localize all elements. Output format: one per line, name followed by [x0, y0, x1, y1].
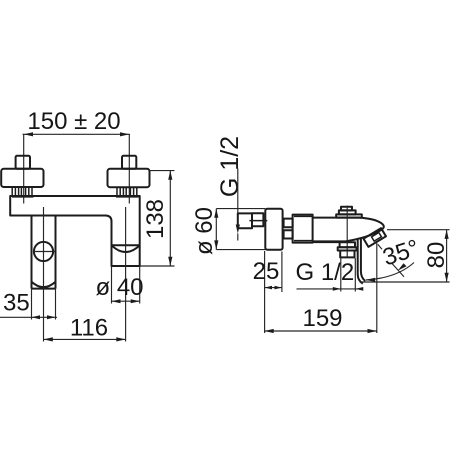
svg-text:138: 138 [142, 199, 169, 239]
arrow 35deg right [398, 263, 407, 270]
outlet lower nipple [340, 251, 354, 258]
dim line 150 [23, 133, 131, 135]
left bolt thread bottom [12, 196, 33, 198]
body centerline [346, 206, 348, 258]
left tube [32, 216, 56, 289]
left bolt thread hatching [12, 187, 32, 196]
arrow 159 right [368, 329, 377, 333]
right tube cap arc [112, 245, 140, 252]
dim line 138 [169, 171, 171, 266]
valve section [293, 215, 313, 243]
dim line 159 [264, 330, 376, 332]
dim 80 bottom extension [362, 281, 450, 283]
arrow 40 right [131, 299, 140, 303]
dim line G 1/2 [297, 288, 363, 290]
arrow 116 right [116, 337, 125, 341]
left tube centerline [43, 207, 45, 342]
arrow 35deg left [366, 278, 376, 282]
G 1/2 left extension [340, 258, 342, 292]
right bolt thread hatching [117, 187, 137, 196]
right bolt centerline [128, 134, 130, 203]
dim 138 top extension [150, 170, 175, 172]
escutcheon disc [265, 209, 282, 250]
cartridge flange [336, 214, 362, 217]
outlet upper nipple [340, 242, 355, 247]
arrow 25 left [265, 286, 272, 290]
dim 40 right extension [139, 266, 141, 304]
union nut [252, 213, 263, 226]
svg-text:ø 60: ø 60 [191, 207, 218, 255]
G 1/2 right extension [354, 258, 356, 292]
arrow 35 right [47, 315, 56, 319]
left tube hole crosshair [33, 251, 55, 253]
left tube hole circle [34, 242, 53, 261]
dim line 40 [112, 300, 140, 302]
right bolt flange [108, 169, 150, 187]
svg-text:116: 116 [70, 314, 108, 341]
arrow 138 top [168, 171, 172, 180]
union nut hex line [249, 220, 267, 222]
left bolt cap [16, 156, 30, 169]
arrow 35 left [32, 315, 41, 319]
svg-text:G 1/2: G 1/2 [296, 259, 355, 286]
svg-text:150 ± 20: 150 ± 20 [27, 108, 120, 135]
mixer body [313, 218, 384, 242]
dim 159 right extension [376, 243, 378, 333]
cartridge stub [339, 210, 356, 214]
valve inner bottom line [294, 240, 313, 242]
dim 25 right extension [281, 252, 283, 293]
right bolt thread bottom [116, 196, 139, 198]
arrow dia60 bottom [214, 240, 218, 249]
arrow 159 left [264, 329, 273, 333]
spout outer edge [358, 240, 363, 284]
dim line 80 [446, 230, 448, 282]
right tube centerline [125, 207, 127, 342]
svg-text:35: 35 [3, 290, 30, 317]
right bolt cap [122, 156, 136, 169]
dim dia60 top extension [216, 208, 265, 210]
wall nipple [238, 213, 252, 228]
body bar outline [10, 196, 140, 266]
leader arrow G 1/2 [236, 225, 240, 234]
arrow 80 top [445, 230, 449, 239]
dim 35 right extension [55, 289, 57, 320]
hex adapter lower tab [284, 230, 293, 238]
svg-text:159: 159 [302, 305, 342, 332]
dim line 25 [265, 287, 282, 289]
arrow right 150 [120, 132, 129, 136]
arrow 80 bottom [445, 273, 449, 282]
arrow 25 right [275, 286, 282, 290]
body bottom edge [313, 241, 340, 243]
aerator inner [372, 232, 382, 241]
dim 138 bottom extension [140, 265, 175, 267]
dim line dia60 [215, 209, 217, 250]
arrow G 1/2 left [333, 287, 341, 291]
left tube bottom arc [32, 282, 56, 287]
hex adapter upper tab [284, 219, 293, 228]
svg-text:80: 80 [423, 242, 450, 269]
spout inner edge [361, 238, 365, 281]
dim line 116 [44, 338, 126, 340]
dim 40 left extension [111, 266, 113, 304]
arrow 138 bottom [168, 257, 172, 266]
valve inner top line [294, 215, 313, 217]
dim line 35 [0, 316, 57, 318]
svg-text:ø 40: ø 40 [96, 274, 144, 301]
dim 25 left extension [264, 251, 266, 333]
arrow 116 left [44, 337, 53, 341]
left bolt centerline [23, 134, 25, 203]
cartridge cap top [341, 207, 352, 211]
dim dia60 bottom extension [216, 249, 265, 251]
dim 35 left extension [31, 289, 33, 320]
svg-text:25: 25 [253, 258, 280, 285]
svg-text:G 1/2: G 1/2 [216, 136, 244, 197]
leader line G 1/2 [237, 169, 239, 227]
aerator outer [364, 228, 386, 247]
arrow G 1/2 right [355, 287, 363, 291]
dim 80 top extension [387, 229, 450, 231]
arrow dia60 top [214, 209, 218, 218]
arrow 40 left [112, 299, 121, 303]
35 degree reference line [378, 244, 382, 249]
right tube cap line [112, 244, 140, 246]
left bolt flange [1, 169, 43, 187]
35 degree arc [366, 263, 414, 281]
arrow left 150 [24, 132, 33, 136]
outlet collar [338, 247, 357, 250]
